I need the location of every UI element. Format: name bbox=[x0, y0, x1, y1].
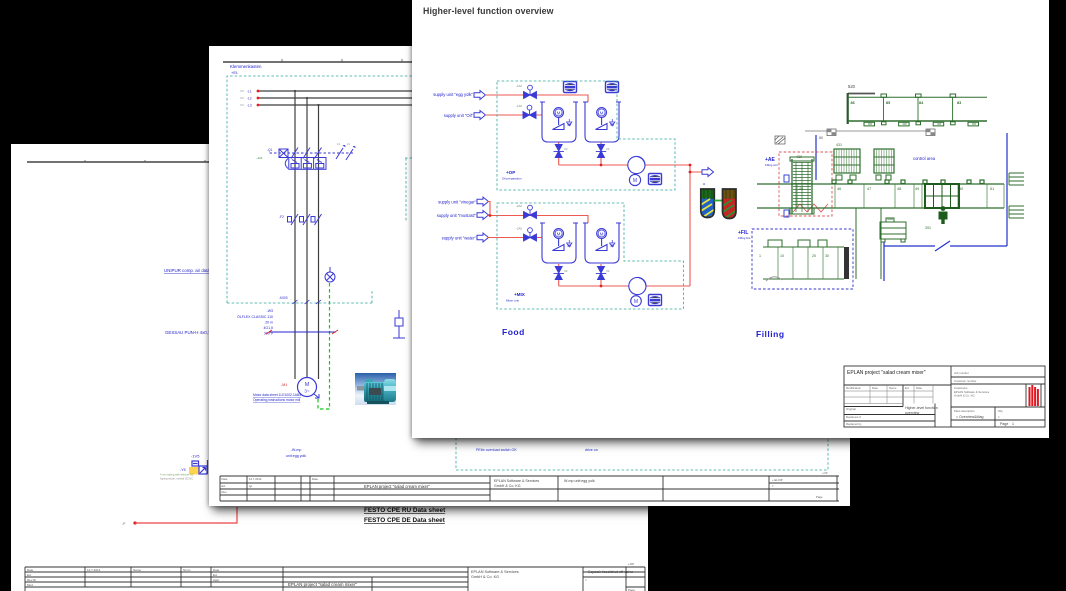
svg-text:Mixer unit: Mixer unit bbox=[506, 299, 519, 303]
svg-text:14.7.2014: 14.7.2014 bbox=[249, 477, 262, 481]
svg-text:47: 47 bbox=[867, 187, 871, 191]
svg-text:20: 20 bbox=[812, 254, 816, 258]
svg-text:85: 85 bbox=[886, 101, 890, 105]
svg-text:Ed.: Ed. bbox=[905, 386, 909, 390]
svg-text:Higher-level function overview: Higher-level function overview bbox=[423, 6, 554, 16]
svg-text:4 mm tubing with silencer G2: 4 mm tubing with silencer G2 bbox=[160, 473, 194, 477]
svg-text:Wty: Wty bbox=[998, 409, 1003, 413]
svg-text:+MIX: +MIX bbox=[514, 292, 526, 297]
svg-text:unit:egg yolk: unit:egg yolk bbox=[286, 454, 306, 458]
svg-text:=: = bbox=[585, 578, 587, 582]
svg-text:FESTO CPE DE Data sheet: FESTO CPE DE Data sheet bbox=[364, 517, 446, 524]
svg-text:51: 51 bbox=[990, 187, 994, 191]
svg-text:Filling: Filling bbox=[756, 329, 785, 339]
svg-text:ÖLFLEX CLASSIC 110: ÖLFLEX CLASSIC 110 bbox=[237, 315, 273, 319]
svg-text:EPLAN Software & Services: EPLAN Software & Services bbox=[494, 479, 539, 483]
svg-text:+EL: +EL bbox=[231, 70, 239, 75]
svg-text:13: 13 bbox=[337, 142, 340, 146]
svg-text:PElbr overload switch OK: PElbr overload switch OK bbox=[476, 448, 517, 452]
svg-text:-L2: -L2 bbox=[247, 97, 252, 101]
svg-text:80: 80 bbox=[819, 136, 823, 140]
svg-text:EPLAN project "salad cream mix: EPLAN project "salad cream mixer" bbox=[847, 370, 926, 376]
svg-text:-2A2: -2A2 bbox=[516, 204, 522, 208]
svg-text:Motor data sheet 1LE1002-1AB4: Motor data sheet 1LE1002-1AB4 bbox=[253, 393, 301, 397]
svg-text:86: 86 bbox=[851, 101, 855, 105]
svg-text:V2: V2 bbox=[564, 147, 568, 151]
svg-text:Date: Date bbox=[312, 477, 318, 481]
svg-text:83: 83 bbox=[957, 101, 961, 105]
svg-text:FESTO CPE RU Data sheet: FESTO CPE RU Data sheet bbox=[364, 507, 446, 514]
svg-text:21: 21 bbox=[347, 142, 350, 146]
svg-text:Customer number: Customer number bbox=[954, 379, 976, 383]
svg-text:10: 10 bbox=[780, 254, 784, 258]
svg-text:49: 49 bbox=[915, 187, 919, 191]
svg-text:431: 431 bbox=[836, 143, 842, 147]
svg-text:3~: 3~ bbox=[304, 389, 310, 394]
svg-text:Replaced by: Replaced by bbox=[846, 422, 862, 426]
svg-text:Appr: Appr bbox=[213, 578, 219, 582]
svg-text:EPLAN project "salad cream mix: EPLAN project "salad cream mixer" bbox=[364, 484, 430, 489]
svg-text:Mod.: Mod. bbox=[27, 583, 34, 587]
svg-text:84: 84 bbox=[919, 101, 924, 105]
svg-text:Plant description: Plant description bbox=[954, 409, 975, 413]
svg-text:Page: Page bbox=[1000, 422, 1008, 426]
svg-text:GmbH & Co. KG: GmbH & Co. KG bbox=[471, 575, 499, 579]
svg-text:+OP: +OP bbox=[506, 170, 515, 175]
svg-text:EPLAN Software & Services: EPLAN Software & Services bbox=[471, 570, 519, 574]
svg-text:tgr: tgr bbox=[249, 484, 252, 488]
svg-text:overview: overview bbox=[905, 411, 920, 415]
svg-text:Operating instructions motor m: Operating instructions motor mill bbox=[253, 398, 301, 402]
svg-text:Higher-level function: Higher-level function bbox=[905, 406, 938, 410]
svg-text:4G1,5: 4G1,5 bbox=[263, 326, 273, 330]
svg-text:20 m: 20 m bbox=[265, 321, 273, 325]
svg-text:Norm: Norm bbox=[183, 568, 191, 572]
svg-text:Filling line: Filling line bbox=[738, 236, 751, 240]
svg-text:control area: control area bbox=[913, 156, 936, 161]
svg-text:-W3: -W3 bbox=[267, 309, 273, 313]
svg-text:+OP: +OP bbox=[628, 562, 634, 566]
svg-text:~400: ~400 bbox=[256, 156, 263, 160]
svg-text:Squeak-feed/shut-off valve: Squeak-feed/shut-off valve bbox=[588, 570, 633, 574]
svg-text:supply unit "Oil": supply unit "Oil" bbox=[444, 113, 474, 118]
svg-text:-1V5: -1V5 bbox=[191, 454, 200, 459]
svg-text:Rev.Nr: Rev.Nr bbox=[27, 578, 36, 582]
svg-text:M: M bbox=[634, 299, 638, 305]
svg-text:GESSAU PUN-H 4x0,75: GESSAU PUN-H 4x0,75 bbox=[165, 330, 213, 335]
svg-text:1: 1 bbox=[1012, 422, 1014, 426]
svg-text:Name: Name bbox=[133, 568, 141, 572]
svg-text:V2: V2 bbox=[564, 269, 568, 273]
svg-text:Klemmenkasten: Klemmenkasten bbox=[230, 64, 262, 69]
svg-text:drive on: drive on bbox=[585, 448, 598, 452]
svg-text:-Q1: -Q1 bbox=[267, 148, 273, 152]
svg-text:=: = bbox=[772, 484, 774, 488]
svg-text:Replaced of: Replaced of bbox=[846, 415, 861, 419]
svg-text:Ed.: Ed. bbox=[222, 484, 226, 488]
svg-text:Name: Name bbox=[889, 386, 897, 390]
svg-text:-1A2: -1A2 bbox=[516, 84, 522, 88]
svg-text:M: M bbox=[633, 178, 637, 184]
svg-text:Ed.: Ed. bbox=[213, 573, 218, 577]
svg-text:Original: Original bbox=[846, 407, 856, 411]
svg-text:-L1: -L1 bbox=[247, 90, 252, 94]
svg-text:-Y5: -Y5 bbox=[180, 468, 186, 472]
svg-text:a: a bbox=[703, 182, 705, 186]
svg-text:Date: Date bbox=[916, 386, 922, 390]
svg-text:supply unit "vinegar": supply unit "vinegar" bbox=[438, 200, 476, 205]
svg-text:=: = bbox=[998, 415, 1000, 419]
svg-text:Page: Page bbox=[816, 495, 823, 499]
svg-text:GmbH & Co. KG: GmbH & Co. KG bbox=[954, 394, 975, 398]
svg-text:Modification: Modification bbox=[846, 386, 861, 390]
svg-text:30: 30 bbox=[825, 254, 829, 258]
svg-text:V4: V4 bbox=[606, 269, 610, 273]
svg-text:-P: -P bbox=[122, 522, 126, 526]
svg-text:45: 45 bbox=[799, 187, 803, 191]
svg-text:V4: V4 bbox=[606, 147, 610, 151]
svg-text:Job number: Job number bbox=[954, 371, 969, 375]
svg-text:48: 48 bbox=[897, 187, 901, 191]
svg-text:Spring return, vented 3/2 NC: Spring return, vented 3/2 NC bbox=[160, 477, 193, 481]
svg-text:= Overview&Mag: = Overview&Mag bbox=[956, 415, 983, 419]
svg-text:supply unit "egg yolk": supply unit "egg yolk" bbox=[433, 92, 473, 97]
svg-text:-K003: -K003 bbox=[279, 296, 288, 300]
svg-text:Ed.: Ed. bbox=[27, 573, 32, 577]
svg-text:14.7.2014: 14.7.2014 bbox=[87, 568, 101, 572]
svg-text:-2A5: -2A5 bbox=[516, 227, 522, 231]
svg-text:46: 46 bbox=[837, 187, 841, 191]
svg-text:EPLAN project "salad cream mix: EPLAN project "salad cream mixer" bbox=[288, 582, 357, 587]
svg-text:-L3: -L3 bbox=[247, 104, 252, 108]
svg-text:-F2: -F2 bbox=[279, 215, 284, 219]
svg-text:supply unit "mustard": supply unit "mustard" bbox=[437, 213, 477, 218]
svg-text:391: 391 bbox=[925, 226, 931, 230]
svg-text:+ EL/OP: + EL/OP bbox=[772, 478, 783, 482]
svg-text:Oil preparation: Oil preparation bbox=[502, 177, 522, 181]
svg-text:Food: Food bbox=[502, 327, 525, 337]
svg-text:M: M bbox=[305, 382, 310, 388]
svg-text:W-mp unit:egg yolk: W-mp unit:egg yolk bbox=[564, 479, 595, 483]
svg-text:-W-mp: -W-mp bbox=[291, 448, 302, 452]
svg-text:GmbH & Co. KG: GmbH & Co. KG bbox=[494, 484, 521, 488]
svg-text:-1A5: -1A5 bbox=[516, 104, 522, 108]
svg-text:Rev: Rev bbox=[222, 490, 228, 494]
svg-text:supply unit "water": supply unit "water" bbox=[442, 236, 477, 241]
svg-text:Filling unit: Filling unit bbox=[765, 163, 778, 167]
svg-text:Date: Date bbox=[872, 386, 878, 390]
svg-text:Date: Date bbox=[222, 477, 228, 481]
svg-text:Date: Date bbox=[27, 568, 34, 572]
svg-text:520: 520 bbox=[848, 84, 856, 89]
svg-text:+OP: +OP bbox=[822, 471, 828, 475]
svg-text:Date: Date bbox=[213, 568, 220, 572]
svg-text:-M1: -M1 bbox=[281, 383, 287, 387]
svg-text:1: 1 bbox=[759, 254, 761, 258]
